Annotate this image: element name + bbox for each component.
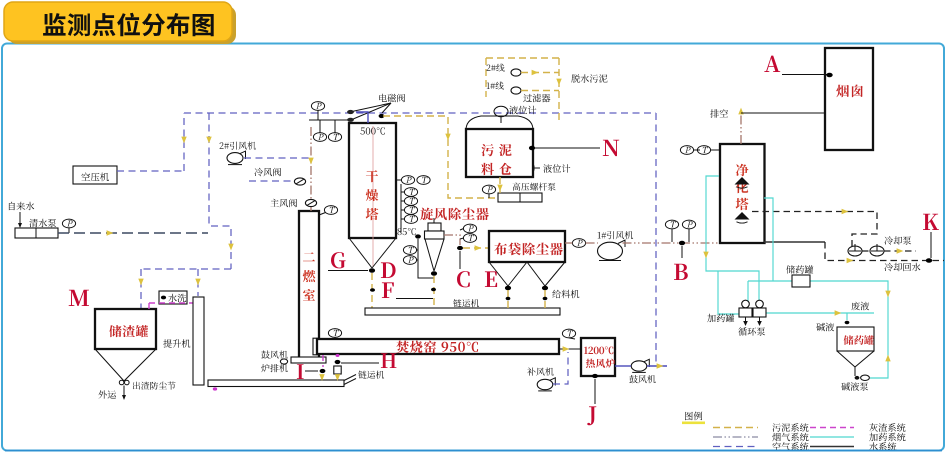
wire sludge feed from screw pump [383,116,498,198]
label 碱液泵 [841,382,868,391]
spray nozzle lower [735,212,750,220]
wire air y269 to slag tank [141,268,231,270]
instrument P before scrubber [682,220,695,242]
node cyclone outlet [431,271,437,275]
label 清水泵 clean water pump [29,219,56,227]
washer 水洗 box [159,291,187,304]
cyclone body [425,231,445,239]
instrument T on kiln [328,329,341,339]
label 循环泵 [738,327,765,335]
wire J stem [594,379,596,404]
monitor point I [297,364,304,379]
node A on chimney [826,73,832,78]
label 鼓风机 left blower [261,351,287,359]
wire sludge into silo [558,58,560,121]
wire ash: washer line magenta [149,302,194,304]
wire dosing big loop right [810,281,888,378]
conveyor 链运机 middle [365,308,560,315]
discharge valve circles 出渣防尘节 [119,380,124,385]
instrument T rail y210 [401,206,418,215]
label 炉排机 grate machine [261,364,287,372]
instrument rail right of tower [400,184,402,232]
monitor point K [923,214,939,230]
baghouse funnel 1 right [508,262,527,286]
valve 冷风阀 [294,178,305,185]
monitor point J [587,406,596,425]
wire dosing down to pump [747,281,749,301]
instrument P scrubber top a [680,146,700,155]
fan 1#引风机 [598,242,623,260]
instrument T rail y219 [401,215,418,224]
wire cooling water solid [764,241,825,243]
instrument T at furnace [562,329,575,339]
pump 冷却泵 2 [870,246,884,256]
funnel slag tank left [95,349,124,381]
label 高压螺杆泵 [513,183,556,191]
legend 空气系统 [772,442,808,451]
wire to baghouse inlet [463,247,488,249]
wire dosing tower-left loop [706,176,759,301]
instrument T rail y201 [401,197,418,206]
wire scrubber vent riser [740,114,742,144]
legend 污泥系统 [772,423,808,432]
wire air from 2# fan [244,157,309,159]
label 补风机 [527,367,554,375]
node at 水洗 [161,296,166,300]
arrow 外运 down [123,386,125,397]
pointer line 链运机 a [344,375,356,381]
label 出渣防尘节 [133,382,176,390]
wire air drop into slag tank [140,269,142,308]
chamber 二燃室 secondary combustion [299,211,319,358]
wire drop baghouse 2 [544,290,546,308]
leader solenoid a [352,103,391,112]
legend dosing line [810,436,854,438]
big tank funnel left [837,351,855,367]
label 烟囱 red [836,85,863,98]
node F sample point [370,288,375,292]
wire air riser x184 [183,113,185,171]
instrument P below y120 [313,121,326,142]
wire flue fan to scrubber [623,242,720,244]
label 主风阀 [270,199,297,208]
wire dosing to small tank [748,280,792,282]
scrubber 净化塔 box [720,144,765,243]
wire cooling supply dashed [752,212,877,247]
level gauge 液位计 top [494,106,508,116]
wire pump out [884,250,916,252]
wire furnace to blower [615,365,631,367]
legend 加药系统 [869,433,905,442]
instrument T rail y192 [401,188,418,197]
pointer line 链运机 b [344,379,356,385]
label 储药罐 small [786,265,813,273]
label 2#引风机 [220,142,256,150]
big tank outlet stem [854,367,856,376]
funnel slag tank right [124,349,156,381]
monitor point E [485,271,497,287]
wire C leader [459,251,461,269]
wire water main y233 [58,232,208,234]
centerline drying tower [372,126,374,267]
legend 灰渣系统 [869,423,905,432]
monitor point N [603,140,619,156]
node below cyclone [431,288,436,292]
label 液位计 right [543,164,570,173]
wire A leader [782,74,827,76]
legend flue line [713,436,758,438]
wire 1# line [521,90,559,92]
arrow tap water down [19,212,21,224]
instrument P baghouse outlet [572,239,585,248]
label 净化塔 red [736,164,749,211]
monitor point D [381,262,396,278]
wire waste liquid 废液 [766,312,874,314]
wire air main header y113 [184,112,656,114]
label 外运 [98,390,116,398]
wire silo outlet to screw pump [499,177,501,193]
legend ash line [810,427,854,429]
frame bottom accent [5,450,942,452]
pump 碱液泵 [855,376,860,380]
label 二燃室 red [303,252,316,300]
spray nozzle upper [735,177,750,185]
node N on silo [529,146,535,150]
arrows under 循环泵 [745,317,747,322]
label 冷却泵 [884,236,911,245]
wire air makeup fan to kiln [553,352,568,384]
wire N leader [535,147,600,149]
node baghouse outlet 1 [505,286,511,290]
tower 干燥塔 drying tower [349,123,396,238]
wire flue P to fan [586,242,598,244]
label 储药罐 big red [844,335,874,345]
node magenta above H box [336,354,340,357]
furnace 1200C 热风炉 box [581,338,615,376]
valve 主风阀 [305,199,316,206]
silo 污泥料仓 dome [466,116,533,130]
node H sample point [335,360,341,364]
baghouse funnel 2 left [527,262,545,286]
label 电磁阀 solenoid valves [379,94,405,103]
node I sample point [320,369,326,373]
leader solenoid c [382,103,391,113]
wire sludge feed vert x486 [485,58,487,97]
label 旋风除尘器 red [420,208,488,221]
wire waste drop [846,313,848,320]
wire I to node [305,370,318,372]
wire 2# line [521,72,559,74]
tank 储药罐 small box [792,275,810,287]
elevator 提升机 column [193,297,204,385]
instrument P below 85C [403,256,418,265]
label 碱液 [816,323,834,332]
small box below kiln at H [334,366,341,374]
instrument P right of tower [396,176,415,185]
wire sludge feed top y58 [486,57,559,59]
cyclone cap [428,223,441,231]
node sludge feed junction [379,114,385,118]
baghouse funnel 1 left [489,262,508,286]
label 链运机 middle [453,299,479,307]
wire flue cyclone to junction [444,235,460,245]
label 排空 [710,109,728,118]
label 热风炉 red [586,359,615,368]
tank 储渣罐 slag storage tank [95,309,156,349]
label 加药罐 [707,314,734,322]
legend 水系统 [869,442,896,451]
chimney 烟囱 box [825,48,873,150]
wire air to cold valve [249,180,294,182]
air compressor 空压机 box [73,166,117,184]
label 500℃ [360,127,384,135]
label 自来水 tap water [9,202,34,210]
kiln left end cap [313,338,319,355]
label 废液 [851,302,869,311]
label 储渣罐 red [109,325,148,337]
label 污泥 red [481,144,511,156]
wire air drop into elevator [197,269,199,296]
monitor point H [381,353,397,368]
wire flue riser x311 into 二燃室 [310,127,312,211]
conveyor 链运机 lower [208,380,344,387]
instrument T scrubber top b [697,146,719,155]
wire cooling return [825,242,944,261]
label 冷风阀 [254,168,281,177]
node on drop 2 [543,297,548,300]
monitor point B [674,264,688,280]
wire K stem [930,232,932,258]
instrument T before scrubber [665,220,678,242]
leader solenoid b [352,103,391,120]
instrument P at cyclone out [460,224,477,233]
node 85C sample [415,234,421,238]
node baghouse outlet 2 [542,286,548,290]
wire dosing to dosing tank [718,271,739,314]
instrument P above y120 [311,102,324,120]
small blower glyph [280,359,287,364]
label 料仓 red [481,163,511,175]
monitor point F [382,282,394,298]
kiln 焚烧窑 body [317,339,559,354]
label 干燥塔 red [366,170,379,220]
label 鼓风机 right [629,375,655,383]
pump 冷却泵 1 [848,246,862,256]
legend air line [713,446,758,448]
silo 污泥料仓 box [466,129,533,177]
label 过滤器 [523,94,550,103]
wire dosing tower-right out [764,198,773,281]
wire G to node [328,270,368,272]
node B [679,241,685,245]
node waste inlet [845,321,850,324]
instrument T at cyclone out [460,234,477,243]
fan 鼓风机 [631,359,649,372]
monitor point A [764,56,780,72]
wire flue baghouse to P [565,242,572,244]
instrument T below 85C [403,246,418,255]
label 冷却回水 [884,263,920,272]
title banner [8,6,236,44]
instrument T below y120 [328,121,341,142]
fan 补风机 [537,378,555,391]
baghouse 布袋除尘器 box [489,231,565,262]
label 1200℃ red [584,347,613,355]
valve 1#线 [511,87,521,94]
pump 清水泵 body [15,228,58,238]
wire H to node [341,362,379,364]
legend water line [810,446,854,448]
node K [926,258,932,263]
node J on furnace bottom [592,374,598,378]
pump 循环泵 pair [739,308,752,317]
wire vent to chimney [741,112,825,114]
node C junction [457,246,463,250]
label 提升机 [163,339,190,347]
baghouse funnel 2 right [545,262,565,286]
valve 2#线 [511,69,521,76]
wire cyclone top stub [433,218,435,223]
wire ash dash at I [322,355,324,367]
funnel drying tower right [372,238,396,268]
fan 2#引风机 [227,151,246,165]
wire sludge drop from tower outlet [371,273,373,308]
node magenta at elevator foot [213,387,217,390]
cyclone cone right [434,239,444,271]
pump 高压螺杆泵 body [498,193,542,202]
wire air riser x656 down to blower [655,113,657,366]
label 2#线 [487,64,505,72]
wire blower out [647,365,667,367]
label 水洗 [168,294,186,302]
label 1#线 [487,82,504,90]
label 85℃ [398,228,416,235]
wire between pumps [862,250,870,252]
wire from 85C node down [418,239,434,278]
wire blue solid into tower top [356,112,368,123]
monitor point C [457,271,470,287]
wire air: compressor to riser [117,170,184,172]
label 液位计 top [509,106,536,115]
instrument P at screw pump [482,185,495,198]
label 给料机 [552,290,579,299]
label 空压机 [81,173,109,182]
wire top feed line y120 [309,119,349,121]
node D drying tower outlet [369,268,375,272]
wire F leader [396,298,433,300]
label 图例 [685,412,702,421]
label 布袋除尘器 red [494,243,562,256]
label 脱水污泥 [571,74,607,82]
node on drop 1 [506,297,511,300]
cyclone cone left [425,239,434,271]
monitor point M [69,290,89,306]
wire air branch x209 [209,113,231,269]
monitor point G [331,252,346,268]
tank 储药罐 big box [837,327,874,351]
label 1#引风机 [598,231,634,239]
wire kiln to furnace [559,348,581,350]
legend sludge line [713,427,758,429]
solenoid valve ellipses [347,110,354,114]
instrument T on 二燃室 top [319,206,338,215]
wire drop baghouse 1 [507,290,509,308]
big tank funnel right [855,351,874,367]
instrument T right of tower [417,176,430,185]
instrument P on clean water pump [62,219,75,233]
wire sludge drop from cyclone [433,276,435,308]
wire ash drop to tank [148,303,150,309]
funnel drying tower left [349,238,372,268]
grate bar under chamber [291,357,326,363]
label 焚烧窑 950℃ [396,341,478,353]
wire B stem [681,246,683,258]
legend 烟气系统 [772,433,808,442]
label 链运机 lower [358,371,384,379]
level gauge mark right [534,167,540,169]
